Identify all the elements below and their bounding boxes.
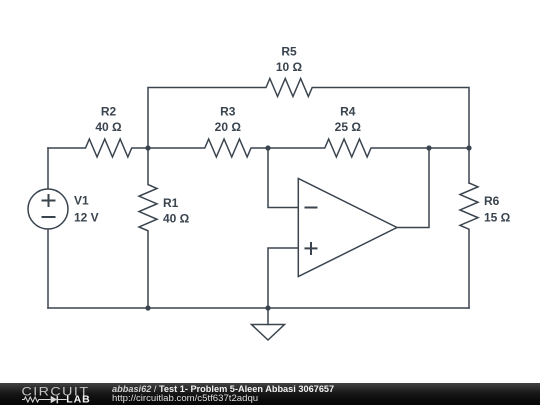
svg-text:40 Ω: 40 Ω bbox=[95, 120, 122, 134]
svg-text:20 Ω: 20 Ω bbox=[215, 120, 242, 134]
svg-text:10 Ω: 10 Ω bbox=[276, 60, 303, 74]
svg-text:LAB: LAB bbox=[66, 394, 91, 405]
svg-text:R5: R5 bbox=[281, 45, 297, 59]
svg-text:15 Ω: 15 Ω bbox=[484, 210, 511, 224]
svg-text:R1: R1 bbox=[163, 196, 179, 210]
svg-text:25 Ω: 25 Ω bbox=[335, 120, 362, 134]
svg-text:R4: R4 bbox=[340, 105, 356, 119]
svg-text:R3: R3 bbox=[220, 105, 236, 119]
svg-text:V1: V1 bbox=[74, 193, 89, 207]
svg-text:R6: R6 bbox=[484, 194, 500, 208]
svg-text:12 V: 12 V bbox=[74, 211, 99, 225]
svg-text:R2: R2 bbox=[101, 105, 117, 119]
svg-text:40 Ω: 40 Ω bbox=[163, 211, 190, 225]
